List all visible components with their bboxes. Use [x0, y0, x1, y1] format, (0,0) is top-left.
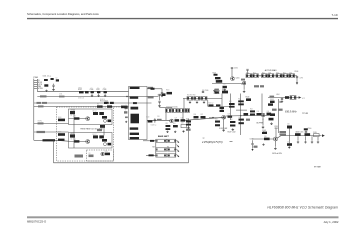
wire 5V line — [37, 96, 158, 98]
label on row3 entry — [149, 154, 154, 156]
svg-text:5V: 5V — [38, 80, 40, 82]
ground — [224, 89, 226, 91]
resistor R532 — [289, 74, 294, 78]
capacitor C523 — [172, 109, 178, 113]
resistor R530 — [276, 74, 282, 78]
svg-text:ACTIVE BIAS: ACTIVE BIAS — [265, 69, 277, 72]
wire rail 2 — [207, 100, 209, 106]
resistor R525 — [241, 79, 245, 81]
capacitor C522 — [158, 101, 160, 102]
svg-text:C28: C28 — [181, 117, 184, 119]
svg-text:Q505: Q505 — [236, 78, 240, 80]
inductor L501 cluster — [70, 111, 75, 114]
junction — [212, 117, 213, 118]
capacitor C518 — [108, 143, 112, 146]
svg-text:C37: C37 — [228, 114, 231, 116]
resistor R550 — [268, 103, 273, 105]
wire down to bus — [53, 140, 55, 163]
svg-text:D2 C7: D2 C7 — [93, 134, 97, 136]
transistor Q503 — [101, 152, 104, 155]
resistor R520 — [201, 97, 207, 101]
resistor R538 — [215, 121, 220, 123]
capacitor C520 — [89, 155, 94, 158]
resistor R510 — [74, 117, 79, 119]
capacitor C531 — [231, 67, 233, 68]
resistor R539 — [186, 121, 191, 123]
svg-text:HLF6080B 800 MHz VCO Schematic: HLF6080B 800 MHz VCO Schematic Diagram — [267, 205, 338, 209]
svg-text:C510: C510 — [146, 116, 150, 118]
svg-text:L55: L55 — [305, 131, 308, 133]
junction — [126, 96, 127, 97]
vertical rail x276 — [275, 127, 277, 137]
svg-text:R503: R503 — [166, 89, 170, 91]
svg-text:R551: R551 — [275, 126, 279, 128]
wire doubler line — [209, 117, 222, 119]
inductor L505 — [305, 133, 311, 136]
ground — [231, 128, 234, 130]
svg-text:R6: R6 — [97, 104, 99, 106]
wire VCC feed — [268, 97, 299, 99]
svg-text:BAND SHIFT: BAND SHIFT — [158, 135, 170, 138]
wire bias row — [212, 83, 246, 85]
svg-text:R509: R509 — [58, 131, 62, 133]
svg-text:D1 C2: D1 C2 — [93, 110, 97, 112]
svg-text:R30: R30 — [276, 72, 279, 74]
resistor R535 — [290, 96, 296, 100]
U501 internal pad — [133, 102, 137, 104]
label C511 — [59, 96, 65, 98]
vertical rail C — [261, 94, 263, 114]
svg-text:C511: C511 — [59, 93, 62, 95]
svg-text:P501: P501 — [34, 77, 40, 79]
header rule — [27, 18, 338, 19]
resistor R536 — [194, 116, 199, 118]
svg-text:R508: R508 — [58, 117, 62, 119]
svg-text:C523 C524 C525: C523 C524 C525 — [166, 107, 178, 109]
capacitor C524 — [179, 109, 185, 113]
svg-text:R41: R41 — [229, 101, 232, 103]
vertical feed to output — [278, 99, 280, 133]
ground — [203, 101, 205, 103]
wire mod line — [34, 131, 69, 133]
wire bias rail drop to tank — [183, 98, 185, 108]
ground — [158, 105, 161, 107]
resistor R506 — [97, 105, 103, 107]
arrow steering out 1 — [177, 140, 180, 143]
svg-text:C8: C8 — [89, 153, 91, 155]
svg-text:R540: R540 — [222, 89, 226, 91]
wire osc base line — [147, 119, 170, 121]
svg-text:R1: R1 — [74, 116, 76, 118]
svg-text:RF PART: RF PART — [314, 166, 321, 169]
capacitor C525 series — [154, 118, 156, 123]
capacitor C527 — [175, 119, 180, 121]
capacitor C503 — [44, 84, 48, 86]
svg-text:836.5 MHz: 836.5 MHz — [285, 110, 297, 113]
svg-text:C5: C5 — [104, 88, 106, 90]
capacitor C517 — [102, 139, 107, 142]
resistor R545 — [230, 121, 235, 123]
U501 mid bar — [130, 127, 139, 129]
pin 1 5V — [34, 79, 38, 81]
capacitor C553 — [252, 140, 254, 143]
label on row1 entry — [150, 140, 154, 142]
resistor R517 — [186, 129, 191, 131]
ground — [125, 121, 127, 123]
svg-text:R547 C542: R547 C542 — [228, 131, 236, 133]
capacitor C530 — [202, 90, 204, 94]
capacitor C544 — [262, 132, 267, 134]
inner dashed box — [87, 150, 114, 161]
svg-text:R31: R31 — [283, 72, 286, 74]
ground cluster — [213, 89, 216, 91]
wire RF output line — [281, 135, 322, 137]
svg-text:R29: R29 — [269, 72, 272, 74]
resonator tank row: resistor R514 — [166, 109, 172, 113]
resistor R516 emitter — [173, 125, 178, 127]
resistor R515 — [166, 125, 171, 127]
wire Q501 base — [69, 118, 86, 120]
ferrite bead E501 — [151, 88, 155, 90]
steering resistor R556 — [156, 154, 167, 157]
wire tank top — [160, 106, 172, 108]
wire stage bus vertical — [73, 109, 75, 148]
svg-text:C543: C543 — [262, 130, 266, 132]
U501 pin label — [125, 107, 128, 109]
regulator U501 body — [129, 87, 148, 140]
svg-text:Schematics, Component Location: Schematics, Component Location Diagrams,… — [27, 12, 99, 16]
svg-text:C26: C26 — [157, 116, 160, 118]
capacitor C539 — [257, 113, 262, 115]
arrow RF OUT — [322, 134, 325, 137]
ground — [288, 146, 290, 148]
ground drop 4 — [317, 137, 319, 141]
wire Q507 emitter — [223, 119, 225, 128]
label on TRB line — [38, 105, 44, 107]
resistor R519 — [194, 97, 200, 101]
capacitor C514 — [102, 116, 107, 119]
svg-text:R32: R32 — [290, 72, 293, 74]
capacitor C538 — [244, 113, 249, 115]
wire bottom bus — [54, 162, 189, 164]
wire chain link — [295, 75, 297, 77]
transistor Q501 — [86, 117, 90, 121]
capacitor C524A — [185, 109, 189, 113]
label C535 — [270, 96, 275, 98]
resistor R542 — [238, 100, 244, 102]
wire interstage — [103, 125, 105, 136]
svg-text:R27: R27 — [253, 72, 256, 74]
label cluster — [215, 89, 219, 91]
pin 4 TRB — [34, 85, 38, 87]
svg-text:R25: R25 — [241, 84, 244, 86]
coupling capacitor C519 — [100, 125, 105, 128]
ground — [243, 90, 246, 92]
svg-text:R26: R26 — [246, 72, 249, 74]
svg-text:R42: R42 — [238, 99, 241, 101]
svg-text:C48: C48 — [295, 131, 298, 133]
svg-text:RX: RX — [153, 146, 156, 148]
steering resistor R555 — [168, 148, 176, 151]
svg-text:Q8: Q8 — [262, 119, 264, 121]
svg-text:L501: L501 — [70, 109, 74, 111]
svg-text:R502: R502 — [79, 88, 83, 90]
resistor R531 — [283, 74, 289, 78]
resistor R528 — [262, 74, 268, 78]
capacitor C548 — [295, 133, 301, 136]
resistor R529 — [268, 74, 274, 78]
dashed VCO shield outline — [57, 107, 114, 161]
wire bias drop — [221, 94, 223, 113]
arrow steering out 2 — [177, 145, 180, 148]
svg-text:R549: R549 — [275, 128, 279, 130]
U501 bottom pad 1 — [130, 133, 139, 135]
svg-text:R44: R44 — [250, 109, 253, 111]
pin 3 LOCK — [34, 83, 38, 85]
inductor L503 — [216, 80, 222, 83]
svg-text:R28: R28 — [262, 72, 265, 74]
label C526 — [157, 119, 162, 121]
wire tank feed — [159, 95, 161, 100]
capacitor C537 — [228, 115, 233, 117]
resistor R509 — [58, 133, 65, 136]
U501 right 5V label — [148, 96, 154, 98]
svg-text:C40: C40 — [267, 111, 270, 113]
svg-text:2.25V(RX)/4.7V(TX): 2.25V(RX)/4.7V(TX) — [201, 141, 223, 144]
label cluster VCO out — [75, 155, 84, 158]
svg-text:C47: C47 — [287, 141, 290, 143]
resistor R541 — [229, 103, 235, 105]
capacitor C545 — [264, 138, 270, 141]
resistor R513 — [105, 153, 110, 156]
transistor Q505 — [231, 77, 235, 81]
ground — [174, 131, 176, 133]
svg-text:R543: R543 — [246, 97, 250, 99]
dashed top extension — [114, 106, 129, 108]
capacitor C516 — [99, 135, 104, 138]
ground — [270, 122, 273, 124]
svg-text:L504: L504 — [276, 94, 280, 96]
svg-text:C516 .01: C516 .01 — [78, 98, 84, 100]
wire steering left rail — [155, 141, 157, 156]
U501 bottom pad 2 — [130, 137, 139, 139]
capacitor C547 — [287, 143, 292, 146]
capacitor C534 — [296, 77, 298, 78]
svg-text:R7: R7 — [107, 104, 109, 106]
svg-text:R37: R37 — [201, 114, 204, 116]
svg-text:C29: C29 — [181, 123, 184, 125]
steering resistor R557 — [168, 154, 176, 157]
capacitor C505 — [85, 91, 89, 93]
capacitor C536 — [281, 98, 283, 101]
capacitor C502 — [56, 79, 59, 81]
svg-text:R18 R19 R20: R18 R19 R20 — [187, 95, 196, 97]
svg-text:C4: C4 — [97, 88, 99, 90]
ground arrow — [296, 82, 298, 84]
capacitor C540 — [267, 113, 272, 116]
resistor R559 — [220, 107, 225, 109]
svg-text:R21 C2: R21 C2 — [209, 103, 214, 105]
ground — [166, 131, 168, 133]
svg-text:R534: R534 — [295, 71, 299, 73]
resistor R503 — [167, 92, 173, 95]
svg-text:VCC: VCC — [302, 98, 306, 100]
label R533 — [254, 85, 259, 87]
svg-text:C531: C531 — [234, 67, 238, 69]
ground drop 2 — [305, 136, 307, 141]
wire steering row3 entry — [146, 154, 156, 156]
ground — [262, 126, 265, 128]
svg-text:C27: C27 — [175, 117, 178, 119]
steering resistor R554 — [156, 148, 167, 151]
svg-text:LOCK: LOCK — [38, 84, 42, 86]
connector P501 bottom bracket — [34, 139, 43, 141]
component cluster left of output — [270, 113, 275, 116]
U501 pin ticks — [125, 117, 128, 119]
RX VCO stage box — [69, 133, 113, 149]
label on VCTRL line — [38, 122, 44, 124]
capacitor C515 — [108, 120, 112, 123]
wire SF 5V bus — [37, 90, 128, 92]
svg-text:VCTRL: VCTRL — [38, 121, 43, 123]
wire tank right leg — [182, 113, 184, 121]
resistor R560 — [58, 139, 65, 141]
pin 2 SF 5V — [34, 81, 38, 83]
resistor R501 — [51, 78, 54, 80]
capacitor C529 — [181, 125, 187, 128]
svg-text:C501 .01: C501 .01 — [43, 75, 50, 77]
wire U501 output — [147, 88, 162, 90]
capacitor C546 rail — [287, 126, 292, 129]
vertical rail B — [240, 94, 242, 136]
resistor R546 — [239, 119, 244, 121]
ground drop 1 — [297, 136, 299, 141]
resistor R524 — [215, 77, 221, 79]
svg-text:C3: C3 — [91, 88, 93, 90]
wire Q508 emitter — [262, 117, 264, 126]
varactor D501 — [93, 112, 98, 115]
wire Q509 emitter — [274, 141, 276, 147]
resistor R522 — [216, 104, 220, 106]
svg-text:R9 R10: R9 R10 — [100, 99, 105, 101]
U501 top pin bar — [130, 87, 140, 89]
svg-text:C45: C45 — [264, 136, 267, 138]
wire osc out — [185, 117, 226, 120]
varactor D502 — [104, 119, 107, 122]
wire active bias chain — [246, 75, 295, 77]
svg-text:TRB: TRB — [38, 86, 41, 88]
capacitor C510 — [148, 120, 153, 122]
svg-text:C39: C39 — [257, 111, 260, 113]
resistor R526 — [246, 74, 252, 78]
connector P501 left rail — [33, 79, 35, 141]
U501 die block — [131, 114, 140, 124]
wire bus riser — [188, 119, 190, 163]
resistor R507 — [107, 105, 112, 107]
capacitor C549 — [314, 134, 320, 137]
resistor R518 — [187, 97, 193, 101]
label on 5V line — [40, 95, 47, 97]
svg-text:TP 2B: TP 2B — [302, 113, 309, 115]
varactor D504 — [104, 143, 107, 146]
ground arrow — [251, 149, 253, 151]
svg-text:R39: R39 — [186, 119, 189, 121]
wire Q506 emitter — [243, 85, 245, 90]
capacitor C532 — [223, 86, 227, 88]
resistor R527 — [253, 74, 259, 78]
net label SUPER FLTR — [121, 106, 128, 109]
svg-text:VCTRL: VCTRL — [38, 88, 43, 90]
svg-text:C32: C32 — [223, 84, 226, 86]
inductor L504 — [285, 96, 289, 99]
svg-text:L502: L502 — [70, 133, 74, 135]
capacitor C541 — [246, 119, 250, 121]
wire buffer line — [226, 114, 274, 117]
wire Q509 collector — [277, 136, 281, 138]
ground drop 3 — [311, 136, 313, 141]
capacitor C509 — [161, 89, 163, 93]
ground — [262, 143, 264, 145]
connector P501 inner rail — [36, 79, 38, 92]
wire output base — [252, 138, 273, 140]
svg-text:C2: C2 — [56, 78, 58, 80]
resistor R537 — [201, 116, 206, 118]
ground — [274, 147, 277, 149]
label cluster above Q509 — [280, 131, 287, 133]
resistor R512 — [97, 129, 102, 131]
ground — [189, 101, 191, 103]
varactor D503 — [93, 135, 98, 138]
U501 output label — [148, 87, 153, 89]
U501 TRB label bar — [131, 107, 139, 110]
ground — [52, 88, 55, 90]
vertical rail A — [229, 94, 231, 121]
capacitor C521 top cluster — [158, 94, 160, 95]
wire Q502 base — [69, 141, 86, 143]
U501 pin label — [124, 111, 127, 113]
wire VCTRL line — [34, 123, 69, 125]
svg-text:562F del F/N: 562F del F/N — [272, 153, 283, 155]
ground — [182, 130, 184, 132]
junction — [240, 115, 241, 116]
capacitor C552 drop — [279, 101, 281, 102]
label on lock line — [37, 102, 42, 104]
ground — [222, 129, 225, 131]
svg-text:7-19: 7-19 — [331, 13, 337, 17]
svg-text:SF 5V: SF 5V — [38, 82, 42, 84]
wire mod entry to RX stage — [55, 139, 69, 142]
svg-text:R2: R2 — [74, 139, 76, 141]
pin 5 VCTRL — [34, 87, 38, 89]
footer rule — [27, 217, 339, 218]
svg-text:C526 1p: C526 1p — [151, 125, 157, 127]
svg-text:L503: L503 — [216, 80, 219, 82]
TX VCO stage box — [69, 109, 113, 125]
capacitor C533 top drop — [247, 71, 249, 74]
arrow to VCO supply — [299, 96, 302, 99]
svg-text:4.7V: 4.7V — [300, 78, 304, 80]
transistor Q506 — [242, 81, 245, 84]
transistor Q502 — [86, 140, 90, 144]
svg-text:R16: R16 — [173, 123, 176, 125]
wire lock line — [34, 102, 152, 104]
capacitor C504 — [52, 85, 54, 86]
arrow steering out 4 — [177, 154, 180, 157]
svg-text:C553: C553 — [250, 139, 254, 141]
U501 5V label bar — [130, 96, 139, 98]
transistor Q509 output — [273, 137, 277, 141]
svg-text:TX: TX — [167, 146, 170, 148]
